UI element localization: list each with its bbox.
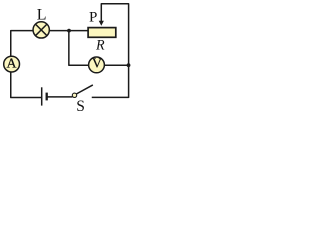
junction node at lamp-rheostat wire	[67, 29, 71, 33]
switch S pivot	[72, 93, 76, 97]
wire ammeter bottom to bottom-left corner to battery	[11, 73, 41, 98]
wire battery to switch pivot	[48, 96, 72, 98]
ammeter A	[4, 56, 20, 72]
wire lamp to rheostat left terminal	[50, 30, 89, 32]
slider arrowhead P	[99, 21, 104, 26]
svg-text:S: S	[76, 98, 85, 114]
switch S lever	[76, 85, 92, 94]
battery positive long plate	[41, 87, 43, 105]
wire top-left segment and left vertical to ammeter	[11, 31, 34, 56]
lamp L	[33, 22, 49, 38]
svg-text:A: A	[7, 56, 17, 71]
wire junction down to voltmeter	[69, 31, 89, 66]
wire voltmeter right to right side	[104, 64, 128, 66]
svg-text:R: R	[95, 37, 105, 53]
rheostat R body	[88, 28, 116, 38]
wire switch to bottom-right corner up right side to top and to slider	[93, 4, 129, 98]
svg-text:P: P	[89, 10, 97, 26]
svg-text:V: V	[92, 56, 102, 71]
svg-text:L: L	[37, 6, 47, 23]
voltmeter V	[89, 56, 105, 73]
junction node at voltmeter-right wire	[127, 63, 131, 67]
battery negative short plate	[46, 93, 48, 101]
